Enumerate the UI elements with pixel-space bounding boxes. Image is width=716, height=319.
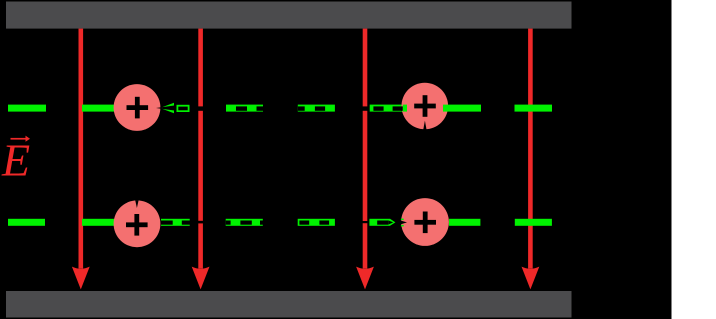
row1 green arrowhead pointing left at Q1 <box>160 103 174 113</box>
bottom capacitor plate <box>6 291 572 318</box>
field line arrow 4 <box>522 29 540 290</box>
row2 molecule bar 1 (solid) <box>8 219 45 226</box>
E field vector label <box>1 135 30 186</box>
svg-text:E: E <box>1 135 30 186</box>
positive charge Q2 (row1 right) <box>402 83 449 130</box>
row1 molecule bar 2 (solid, runs under charge) <box>82 105 120 112</box>
row2 molecule bar 2 (solid, runs under charge) <box>82 219 120 226</box>
positive charge Q1 (row1 left) <box>114 84 161 131</box>
row1 molecule bar 7 (solid) <box>515 105 553 112</box>
white margin strip right <box>672 0 716 319</box>
row2 molecule bar 5 (solid) <box>449 219 480 226</box>
black dash crossing field line 3 row1 <box>362 106 367 110</box>
black dash crossing field line 2 row2 <box>198 221 203 224</box>
row1 molecule bar 1 (solid) <box>8 105 46 112</box>
row1 dashed rectangle segment <box>177 105 190 112</box>
row1 molecule bar 6 (solid) <box>443 105 481 112</box>
row1 molecule bar 5 (green with black dash overlay) <box>370 105 407 112</box>
row1 dash remnant over Q2 edge <box>401 106 403 110</box>
positive charge Q3 (row2 left) <box>114 200 161 247</box>
row2 arrow segment pointing right toward Q4 <box>369 219 395 226</box>
row1 molecule bar 4 (green with black dash overlay) <box>298 105 335 112</box>
row1 molecule bar 3 (green with black dash overlay) <box>226 105 264 112</box>
black dash crossing field line 3 row2 <box>362 221 367 223</box>
field line arrow 2 <box>192 29 210 290</box>
row1 black arrowhead overlay (cuts circle and green head) <box>156 105 176 110</box>
field line arrow 3 <box>356 29 374 290</box>
field line arrow 1 <box>72 29 90 290</box>
top capacitor plate <box>6 2 572 29</box>
positive charge Q4 (row2 right) <box>401 198 449 246</box>
row2 molecule bar 4 (green with black dash overlay) <box>298 219 335 226</box>
row2 segment right of Q3 (green with black dash overlay) <box>161 219 191 226</box>
row2 molecule bar 6 (solid) <box>515 219 552 226</box>
black dash crossing field line 2 row1 <box>198 106 203 110</box>
row2 molecule bar 3 (green with black dash overlay) <box>226 219 263 226</box>
